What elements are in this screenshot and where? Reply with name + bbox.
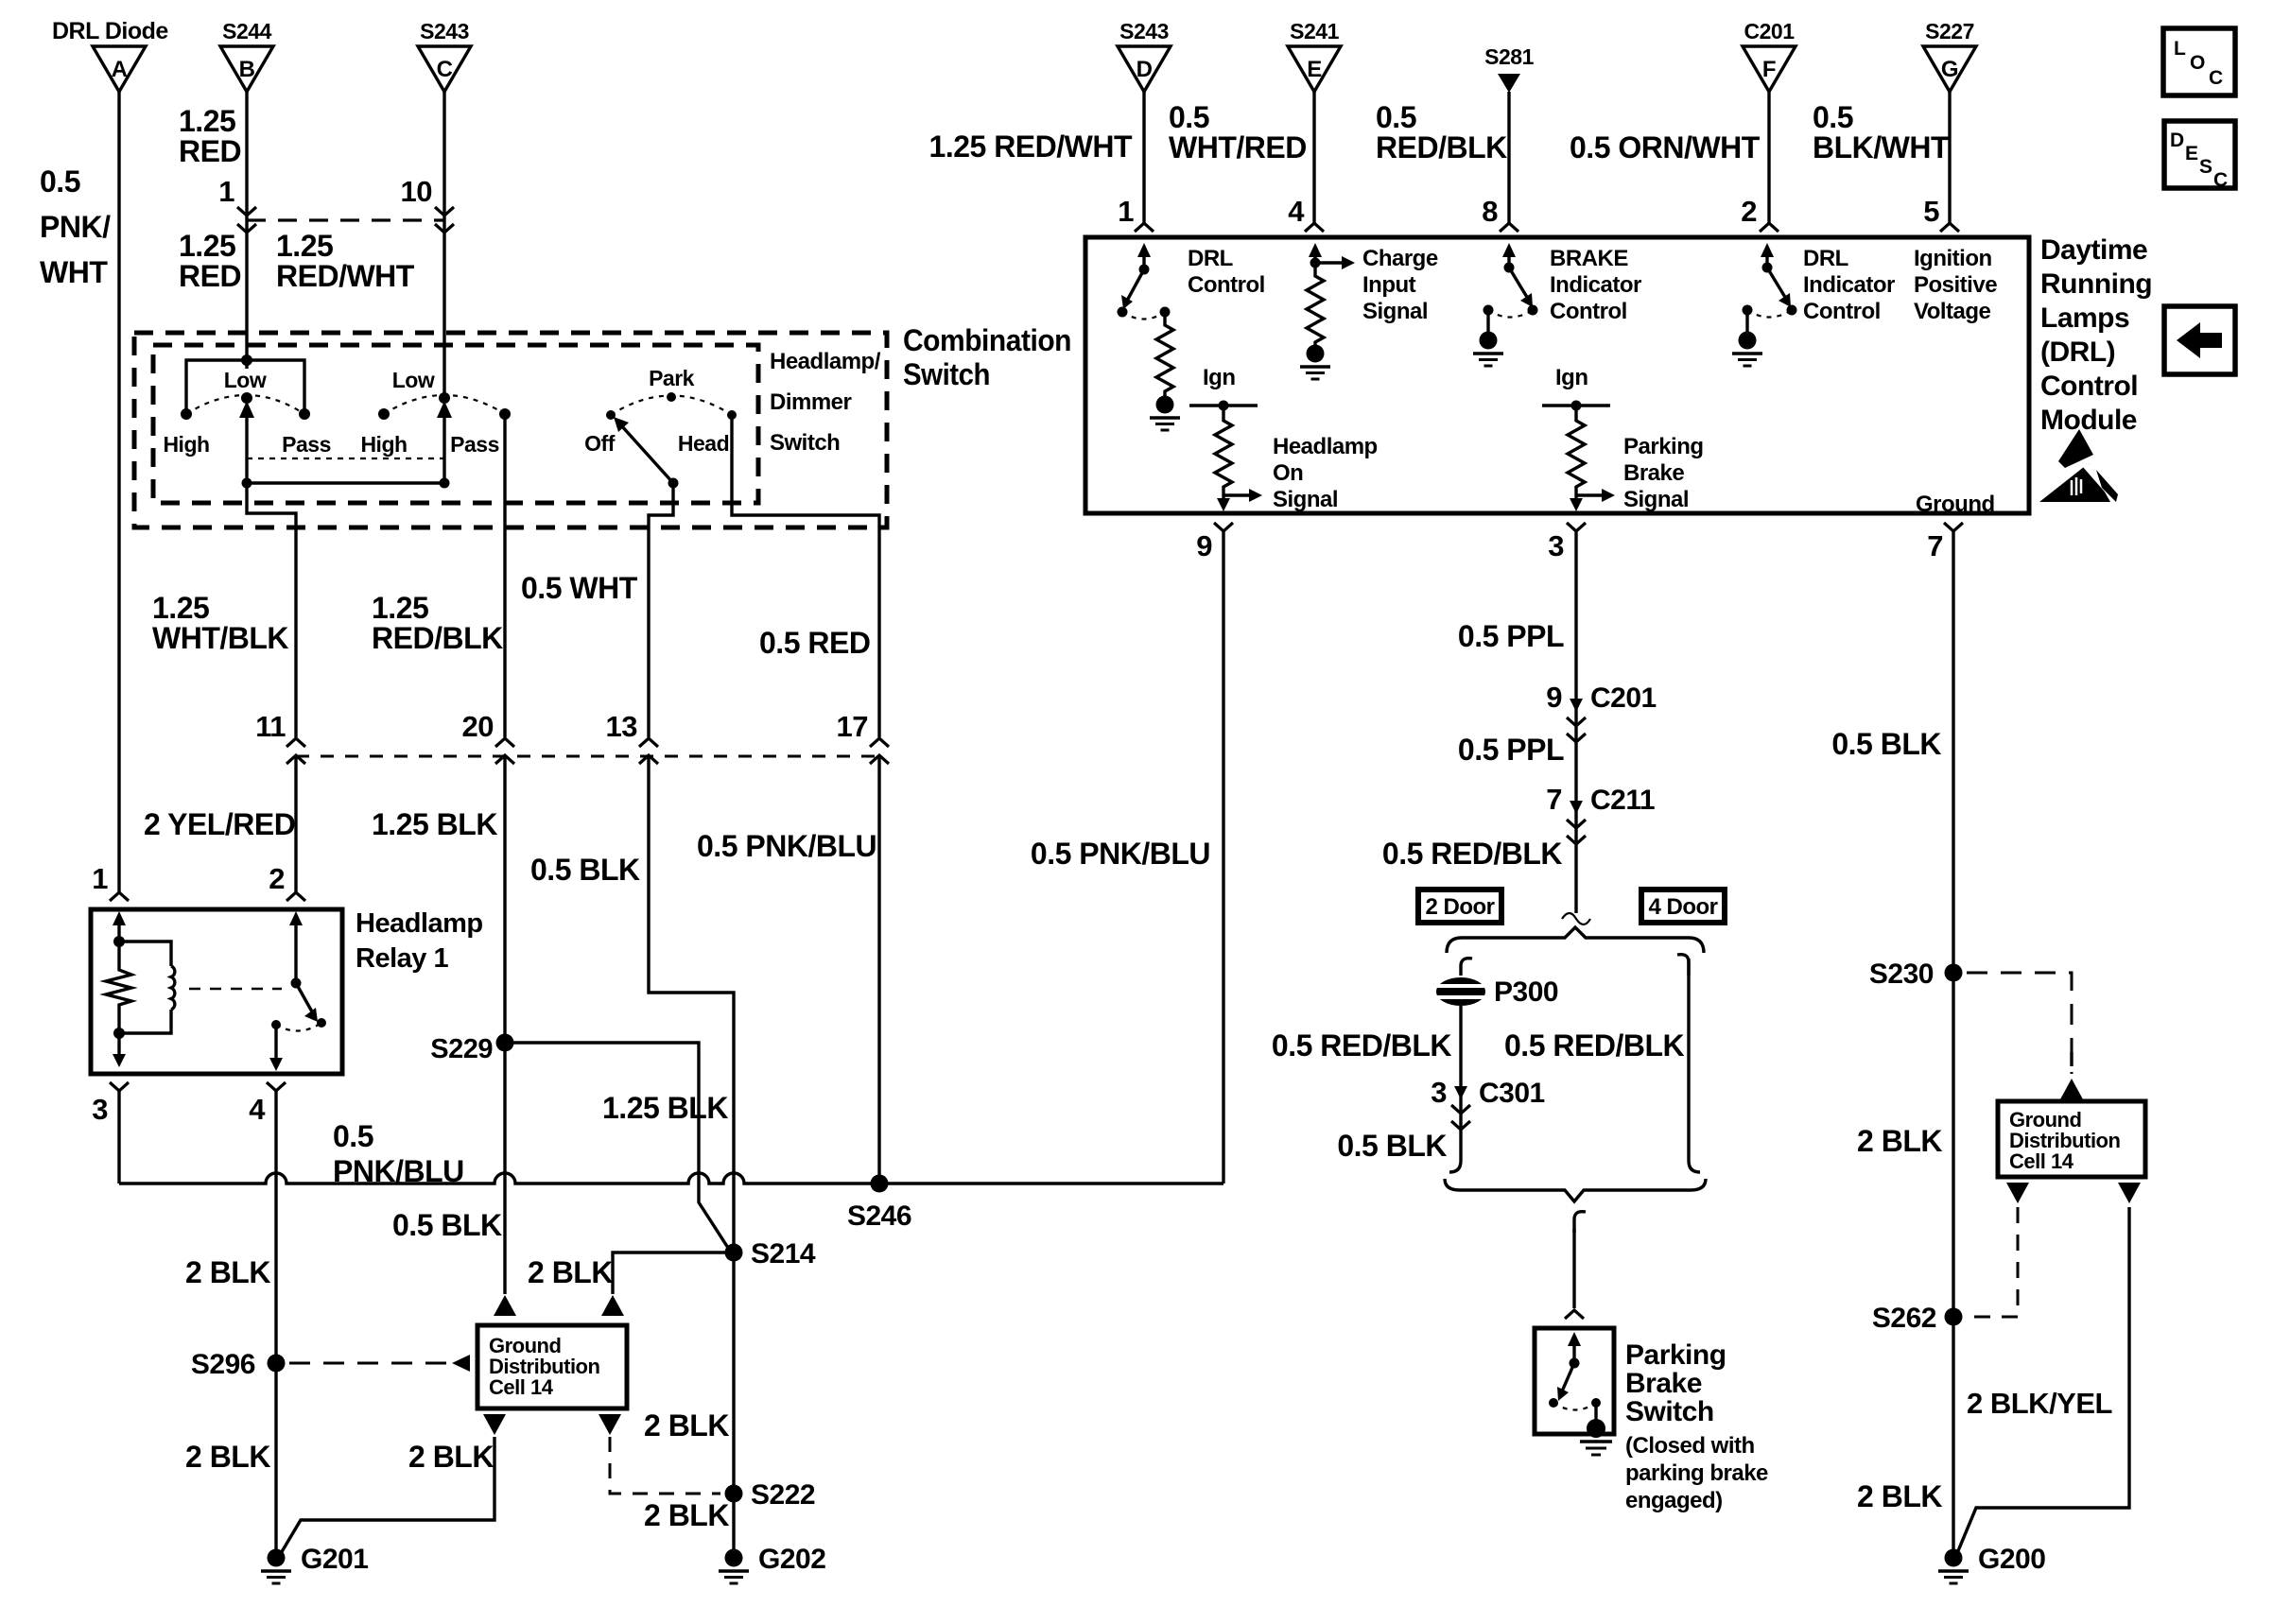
- headlamp relay label: [356, 908, 483, 974]
- svg-text:Switch: Switch: [1625, 1396, 1714, 1427]
- arrow below ground cell right: [599, 1414, 621, 1435]
- svg-text:2 BLK: 2 BLK: [528, 1255, 613, 1289]
- svg-text:2 BLK: 2 BLK: [644, 1408, 729, 1443]
- svg-text:1.25 BLK: 1.25 BLK: [602, 1091, 728, 1125]
- Headlamp On Signal label: [1273, 434, 1378, 512]
- ESD symbol: [2039, 429, 2118, 502]
- svg-text:Head: Head: [678, 431, 729, 456]
- svg-text:C201: C201: [1590, 682, 1657, 714]
- svg-text:7: 7: [1546, 783, 1562, 816]
- wire C 1.25 RED/WHT: [276, 92, 454, 398]
- module resistor pin4: [1307, 263, 1324, 346]
- wire S229 down 0.5 BLK: [392, 1043, 505, 1294]
- wire break tilde: [1562, 913, 1590, 924]
- arrow below ground cell right box left: [2006, 1183, 2029, 1203]
- svg-text:Dimmer: Dimmer: [770, 389, 852, 415]
- svg-text:0.5 ORN/WHT: 0.5 ORN/WHT: [1570, 130, 1761, 164]
- svg-text:S230: S230: [1869, 959, 1934, 990]
- svg-text:2 YEL/RED: 2 YEL/RED: [144, 807, 295, 841]
- pass-through grommet P300: [1436, 976, 1558, 1008]
- parking brake switch arm: [1557, 1332, 1581, 1401]
- svg-text:0.5 BLK: 0.5 BLK: [1337, 1129, 1447, 1163]
- wire A 0.5 PNK/WHT: [40, 92, 119, 892]
- svg-text:Brake: Brake: [1623, 460, 1684, 486]
- svg-text:Brake: Brake: [1625, 1368, 1702, 1399]
- dashed wire ground cell to S262: [1969, 1207, 2018, 1317]
- svg-text:G200: G200: [1978, 1544, 2045, 1575]
- svg-text:Indicator: Indicator: [1803, 272, 1895, 298]
- wire 11 to relay pin 1..2: [294, 755, 297, 892]
- module resistor pin1: [1156, 312, 1173, 397]
- svg-text:1.25: 1.25: [152, 591, 209, 625]
- relay pin 1 chevron: [92, 862, 129, 901]
- dimmer switch 2 contacts: [360, 368, 511, 457]
- relay coil: [113, 942, 175, 1039]
- svg-text:4 Door: 4 Door: [1648, 894, 1717, 920]
- wire E 0.5 RED/BLK: [1288, 92, 1507, 232]
- svg-text:A: A: [112, 57, 128, 82]
- svg-text:S: S: [2199, 156, 2212, 178]
- svg-text:4: 4: [249, 1093, 266, 1126]
- svg-text:2: 2: [1741, 195, 1757, 228]
- module resistor Ign2: [1568, 406, 1585, 495]
- module pin 8 internal switch (BRAKE Indicator Control): [1484, 243, 1538, 318]
- dimmer switch 2 wiper arrow: [437, 401, 452, 483]
- svg-text:(Closed with: (Closed with: [1625, 1433, 1755, 1459]
- svg-text:11: 11: [255, 710, 286, 743]
- 2 Door tag box: [1418, 890, 1501, 923]
- svg-text:S229: S229: [430, 1034, 493, 1064]
- svg-text:G: G: [1941, 57, 1958, 82]
- svg-text:1: 1: [1118, 195, 1134, 228]
- svg-text:Control: Control: [2040, 371, 2138, 402]
- ground G200: [1938, 1544, 2045, 1583]
- relay actuation dashed link: [189, 988, 282, 991]
- svg-text:2 BLK: 2 BLK: [1857, 1124, 1942, 1158]
- module pin 7 bottom chevron: [1927, 523, 1963, 562]
- svg-text:Relay 1: Relay 1: [356, 943, 448, 974]
- svg-text:DRL: DRL: [1803, 246, 1848, 271]
- svg-text:Input: Input: [1362, 272, 1416, 298]
- svg-text:F: F: [1762, 57, 1776, 82]
- wire S229 right to S214 1.25 BLK: [505, 1043, 728, 1248]
- svg-text:Daytime: Daytime: [2040, 234, 2147, 266]
- DESC box: [2164, 121, 2235, 191]
- svg-text:0.5 BLK: 0.5 BLK: [392, 1208, 502, 1242]
- splice S229: [430, 1034, 513, 1065]
- svg-text:Control: Control: [1550, 299, 1627, 324]
- svg-text:Running: Running: [2040, 268, 2152, 300]
- wire from ground cell to G201: [277, 1437, 495, 1560]
- svg-text:WHT/BLK: WHT/BLK: [152, 621, 288, 655]
- parking brake switch label: [1625, 1339, 1768, 1513]
- svg-text:Voltage: Voltage: [1914, 299, 1991, 324]
- DRL Indicator Control label: [1803, 246, 1895, 324]
- svg-text:Switch: Switch: [770, 430, 840, 456]
- module Ign source 1: [1189, 365, 1258, 411]
- Ignition Positive Voltage label: [1914, 246, 1997, 324]
- wire module pin 7 down 0.5 BLK: [1831, 531, 1953, 1558]
- svg-text:5: 5: [1923, 195, 1939, 228]
- svg-text:8: 8: [1482, 195, 1498, 228]
- dimmer switch 1 contacts: [163, 368, 330, 457]
- Parking Brake Signal label: [1623, 434, 1704, 512]
- svg-text:Signal: Signal: [1362, 299, 1428, 324]
- DRL control module box: [1085, 237, 2029, 513]
- svg-text:engaged): engaged): [1625, 1488, 1723, 1513]
- svg-text:E: E: [2185, 143, 2198, 164]
- wire S214 to ground cell 2 BLK: [528, 1253, 734, 1316]
- splice S246: [847, 1175, 911, 1233]
- module pin 4 circuit (Charge Input Signal): [1309, 243, 1355, 269]
- ground G201: [261, 1544, 368, 1583]
- Parking Brake Signal arrows: [1570, 489, 1615, 511]
- svg-text:BRAKE: BRAKE: [1550, 246, 1628, 271]
- svg-text:0.5: 0.5: [1813, 100, 1853, 134]
- wire Head to pin 17: [732, 415, 879, 737]
- connector C201 inline: [1546, 681, 1656, 742]
- wire labels above row 800: [152, 571, 870, 660]
- svg-text:2: 2: [269, 862, 285, 895]
- svg-text:C201: C201: [1744, 19, 1796, 43]
- svg-text:C301: C301: [1479, 1078, 1545, 1109]
- headlamp switch contact arc: [611, 396, 732, 416]
- left leg top hook: [1461, 959, 1472, 976]
- svg-text:BLK/WHT: BLK/WHT: [1813, 130, 1950, 164]
- svg-text:RED/WHT: RED/WHT: [276, 259, 415, 293]
- svg-text:RED/BLK: RED/BLK: [372, 621, 503, 655]
- wire 17 down to S246: [877, 755, 880, 1183]
- svg-text:1.25: 1.25: [179, 104, 235, 138]
- svg-text:Signal: Signal: [1273, 487, 1338, 512]
- dashed wire ground cell to S222: [610, 1408, 729, 1494]
- svg-text:3: 3: [1548, 529, 1564, 562]
- connector F (C201): [1743, 19, 1796, 92]
- parking brake switch ground: [1580, 1403, 1612, 1455]
- svg-text:WHT/RED: WHT/RED: [1169, 130, 1307, 164]
- svg-text:20: 20: [462, 710, 494, 743]
- relay coil arm arrow up: [113, 911, 126, 947]
- svg-text:0.5: 0.5: [333, 1119, 373, 1153]
- dashed link S296 to ground cell: [289, 1355, 470, 1372]
- svg-text:Ign: Ign: [1555, 365, 1588, 390]
- wire relay pin3 down: [117, 1091, 120, 1183]
- svg-text:Headlamp: Headlamp: [1273, 434, 1378, 459]
- svg-text:0.5 PNK/BLU: 0.5 PNK/BLU: [697, 829, 876, 863]
- svg-text:PNK/: PNK/: [40, 210, 111, 244]
- LOC box: [2163, 28, 2235, 95]
- ground G202: [719, 1544, 825, 1583]
- Charge Input Signal label: [1362, 246, 1438, 324]
- headlamp switch Off/Park/Head contacts: [584, 366, 737, 456]
- wire 2 BLK/YEL from ground cell to G200: [1957, 1207, 2129, 1553]
- relay switch out arrow down: [269, 1025, 283, 1071]
- left arrow box: [2164, 306, 2235, 374]
- relay resistor: [106, 942, 131, 1033]
- closing brace merge: [1445, 1179, 1706, 1201]
- svg-text:1.25 RED/WHT: 1.25 RED/WHT: [929, 130, 1133, 164]
- svg-text:S222: S222: [751, 1479, 815, 1511]
- svg-text:D: D: [1136, 57, 1153, 82]
- opening brace split: [1447, 927, 1704, 953]
- svg-text:DRL Diode: DRL Diode: [52, 18, 168, 44]
- svg-text:0.5 RED/BLK: 0.5 RED/BLK: [1272, 1028, 1451, 1063]
- svg-text:Charge: Charge: [1362, 246, 1438, 271]
- wire S281 to pin 8: [1482, 92, 1518, 232]
- svg-text:Headlamp/: Headlamp/: [770, 349, 881, 374]
- parking brake switch box: [1535, 1328, 1614, 1434]
- svg-text:0.5 WHT: 0.5 WHT: [521, 571, 638, 605]
- wire right leg: [1677, 955, 1700, 1172]
- wire left leg 0.5 RED/BLK: [1272, 1006, 1461, 1172]
- svg-text:4: 4: [1288, 195, 1305, 228]
- svg-text:S241: S241: [1290, 19, 1339, 43]
- svg-text:Cell 14: Cell 14: [2009, 1149, 2074, 1173]
- svg-text:10: 10: [401, 175, 432, 208]
- module pin 2 internal switch (DRL Indicator Control): [1743, 243, 1797, 318]
- arrow below ground cell left: [483, 1414, 506, 1435]
- dimmer switch 1 wiper arrow: [239, 401, 254, 483]
- relay switch arm: [289, 911, 318, 1022]
- svg-text:S296: S296: [191, 1349, 255, 1380]
- svg-text:1.25: 1.25: [372, 591, 428, 625]
- svg-text:Indicator: Indicator: [1550, 272, 1641, 298]
- svg-text:S243: S243: [420, 19, 469, 43]
- headlamp relay 1 box: [91, 909, 342, 1074]
- svg-text:0.5 RED/BLK: 0.5 RED/BLK: [1504, 1028, 1684, 1063]
- svg-text:C: C: [2209, 67, 2223, 89]
- splice S222: [725, 1479, 816, 1511]
- connector B (S244): [220, 19, 273, 92]
- dimmer switch 1 contact arc: [186, 395, 304, 414]
- svg-text:Parking: Parking: [1625, 1339, 1726, 1371]
- svg-text:RED: RED: [179, 134, 241, 168]
- module ground pin1: [1150, 396, 1180, 431]
- svg-text:0.5 PPL: 0.5 PPL: [1458, 619, 1564, 653]
- svg-text:Control: Control: [1803, 299, 1881, 324]
- relay pin 3 chevron: [92, 1082, 129, 1126]
- connector D (S243): [1118, 19, 1171, 92]
- headlamp/dimmer switch inner dashed box: [153, 345, 758, 503]
- svg-text:Low: Low: [224, 368, 267, 392]
- svg-text:0.5 BLK: 0.5 BLK: [1831, 727, 1941, 761]
- svg-text:G201: G201: [301, 1544, 368, 1575]
- svg-text:9: 9: [1196, 529, 1212, 562]
- svg-text:Signal: Signal: [1623, 487, 1689, 512]
- wire pass2 to pin 20: [503, 414, 506, 737]
- svg-text:S243: S243: [1119, 19, 1169, 43]
- wire labels below row 800: [144, 807, 876, 887]
- svg-text:S244: S244: [222, 19, 271, 43]
- svg-text:S214: S214: [751, 1238, 816, 1270]
- connector C (S243): [418, 19, 471, 92]
- connector C211 inline: [1546, 783, 1655, 844]
- merge bottom hook: [1574, 1212, 1586, 1233]
- arrow into ground cell from S229 wire: [494, 1295, 516, 1316]
- svg-text:2 BLK: 2 BLK: [185, 1255, 270, 1289]
- splice S230: [1869, 959, 1963, 990]
- svg-text:WHT: WHT: [40, 255, 108, 289]
- module ground pin2: [1732, 310, 1762, 366]
- connector A (DRL Diode): [52, 18, 168, 92]
- svg-text:0.5 PNK/BLU: 0.5 PNK/BLU: [1031, 837, 1210, 871]
- wire module pin 3 down: [1458, 531, 1576, 913]
- svg-text:0.5 BLK: 0.5 BLK: [530, 853, 640, 887]
- svg-text:S262: S262: [1872, 1303, 1936, 1334]
- svg-text:1: 1: [218, 175, 234, 208]
- ground distribution cell 14 box right: [1998, 1101, 2145, 1177]
- svg-text:13: 13: [606, 710, 638, 743]
- svg-text:Positive: Positive: [1914, 272, 1997, 298]
- headlamp switch arm arrow: [614, 417, 679, 489]
- wire G 0.5 BLK/WHT: [1813, 92, 1959, 232]
- relay switch contacts: [271, 1018, 326, 1031]
- svg-text:Lamps: Lamps: [2040, 302, 2129, 334]
- headlamp/dimmer switch label: [770, 349, 881, 456]
- svg-text:PNK/BLU: PNK/BLU: [333, 1154, 464, 1188]
- wire D 0.5 WHT/RED: [929, 92, 1307, 232]
- svg-text:Parking: Parking: [1623, 434, 1704, 459]
- svg-text:P300: P300: [1494, 976, 1558, 1008]
- wire bus to pin 11 jog: [247, 483, 296, 737]
- svg-text:DRL: DRL: [1188, 246, 1233, 271]
- 4 Door tag box: [1641, 890, 1725, 923]
- module Ign source 2: [1542, 365, 1610, 411]
- svg-text:7: 7: [1927, 529, 1943, 562]
- svg-text:2 BLK: 2 BLK: [185, 1440, 270, 1474]
- svg-text:17: 17: [837, 710, 868, 743]
- svg-text:RED: RED: [179, 259, 241, 293]
- svg-text:0.5 PPL: 0.5 PPL: [1458, 733, 1564, 767]
- svg-text:O: O: [2190, 52, 2205, 74]
- svg-text:1: 1: [92, 862, 108, 895]
- svg-text:Pass: Pass: [450, 432, 499, 457]
- svg-text:parking brake: parking brake: [1625, 1460, 1768, 1486]
- BRAKE Indicator Control label: [1550, 246, 1641, 324]
- svg-text:2 BLK/YEL: 2 BLK/YEL: [1967, 1387, 2112, 1420]
- svg-text:Park: Park: [649, 366, 695, 390]
- wire relay pin4 down 2 BLK: [185, 1091, 276, 1558]
- wire 0.5 PNK/BLU horizontal with hops: [119, 1119, 1223, 1188]
- svg-text:RED/BLK: RED/BLK: [1376, 130, 1507, 164]
- svg-text:3: 3: [92, 1093, 108, 1126]
- svg-text:Off: Off: [584, 431, 616, 456]
- wire headlamp arm to pin 13: [649, 483, 673, 737]
- wire module pin 9 vertical: [1031, 523, 1233, 1183]
- svg-text:1.25: 1.25: [179, 229, 235, 263]
- relay pin 2 chevron: [269, 862, 305, 901]
- dashed link S230 to ground cell right: [1967, 973, 2072, 1074]
- wire to parking brake switch: [1565, 1229, 1584, 1319]
- relay coil out arrow down: [113, 1033, 126, 1067]
- svg-text:D: D: [2170, 130, 2184, 151]
- arrow below ground cell right box right: [2118, 1183, 2141, 1203]
- svg-text:Pass: Pass: [282, 432, 331, 457]
- arrow into ground cell right: [2060, 1079, 2083, 1099]
- connector C301 inline: [1431, 1076, 1544, 1130]
- parking brake switch contacts: [1549, 1398, 1601, 1410]
- connector S281: [1484, 44, 1534, 93]
- svg-text:B: B: [239, 57, 255, 82]
- module ground pin8: [1473, 310, 1503, 366]
- svg-text:Switch: Switch: [903, 357, 990, 391]
- chevron row pins 11 20 13 17: [255, 710, 889, 764]
- svg-text:1.25: 1.25: [276, 229, 333, 263]
- svg-text:3: 3: [1431, 1076, 1447, 1109]
- splice S262: [1872, 1303, 1963, 1334]
- svg-text:E: E: [1307, 57, 1322, 82]
- svg-text:0.5: 0.5: [1376, 100, 1416, 134]
- svg-text:C: C: [2213, 169, 2228, 191]
- wire S214 to S222 to G202: [644, 1253, 734, 1558]
- svg-text:Headlamp: Headlamp: [356, 908, 483, 939]
- svg-text:Ignition: Ignition: [1914, 246, 1992, 271]
- svg-text:Cell 14: Cell 14: [489, 1375, 554, 1399]
- wire 13 down jog to x776: [649, 755, 734, 1253]
- svg-text:Low: Low: [392, 368, 435, 392]
- svg-text:Ground: Ground: [1916, 492, 1995, 517]
- splice S214: [725, 1238, 816, 1270]
- svg-text:S227: S227: [1925, 19, 1974, 43]
- wire 20 down to S229: [503, 755, 506, 1043]
- svg-text:Module: Module: [2040, 405, 2137, 436]
- svg-text:S281: S281: [1484, 44, 1534, 69]
- dimmer switch 2 contact arc: [384, 395, 505, 414]
- svg-text:On: On: [1273, 460, 1303, 486]
- splice S296: [191, 1349, 286, 1380]
- daytime running lamps title: [2040, 234, 2152, 436]
- svg-text:2 BLK: 2 BLK: [644, 1498, 729, 1532]
- svg-text:2 Door: 2 Door: [1425, 894, 1494, 920]
- svg-text:Combination: Combination: [903, 323, 1071, 357]
- svg-text:High: High: [360, 432, 407, 457]
- svg-text:2 BLK: 2 BLK: [1857, 1479, 1942, 1513]
- svg-text:Ign: Ign: [1203, 365, 1236, 390]
- combination switch label: [903, 323, 1071, 391]
- dashed splice line row 800: [296, 755, 879, 758]
- svg-text:High: High: [163, 432, 209, 457]
- wire B 1.25 RED: [179, 92, 256, 369]
- svg-text:G202: G202: [758, 1544, 825, 1575]
- combination switch outer dashed box: [134, 333, 887, 527]
- dimmer mechanical link dashed: [247, 458, 444, 459]
- module ground pin4: [1300, 345, 1330, 380]
- svg-text:0.5: 0.5: [40, 164, 80, 199]
- svg-text:9: 9: [1546, 681, 1562, 714]
- dimmer switch 1 bracket: [186, 354, 304, 414]
- svg-text:(DRL): (DRL): [2040, 337, 2115, 368]
- svg-text:C211: C211: [1590, 785, 1655, 816]
- relay pin 4 chevron: [249, 1082, 286, 1126]
- svg-text:Control: Control: [1188, 272, 1265, 298]
- svg-text:2 BLK: 2 BLK: [408, 1440, 494, 1474]
- DRL Control label: [1188, 246, 1265, 298]
- svg-text:L: L: [2174, 38, 2186, 60]
- module resistor Ign1: [1215, 406, 1232, 495]
- module pin 3 bottom chevron: [1548, 523, 1586, 562]
- Headlamp On Signal arrows: [1217, 489, 1262, 511]
- connector E (S241): [1288, 19, 1341, 92]
- connector G (S227): [1923, 19, 1976, 92]
- svg-text:S246: S246: [847, 1201, 911, 1232]
- ground distribution cell 14 box left: [477, 1325, 627, 1408]
- module pin 1 internal switch (DRL Control): [1118, 243, 1171, 320]
- svg-text:0.5 RED/BLK: 0.5 RED/BLK: [1382, 837, 1562, 871]
- svg-text:0.5 RED: 0.5 RED: [759, 626, 870, 660]
- svg-text:1.25 BLK: 1.25 BLK: [372, 807, 497, 841]
- wire F 0.5 ORN/WHT: [1570, 92, 1778, 232]
- svg-text:C: C: [437, 57, 453, 82]
